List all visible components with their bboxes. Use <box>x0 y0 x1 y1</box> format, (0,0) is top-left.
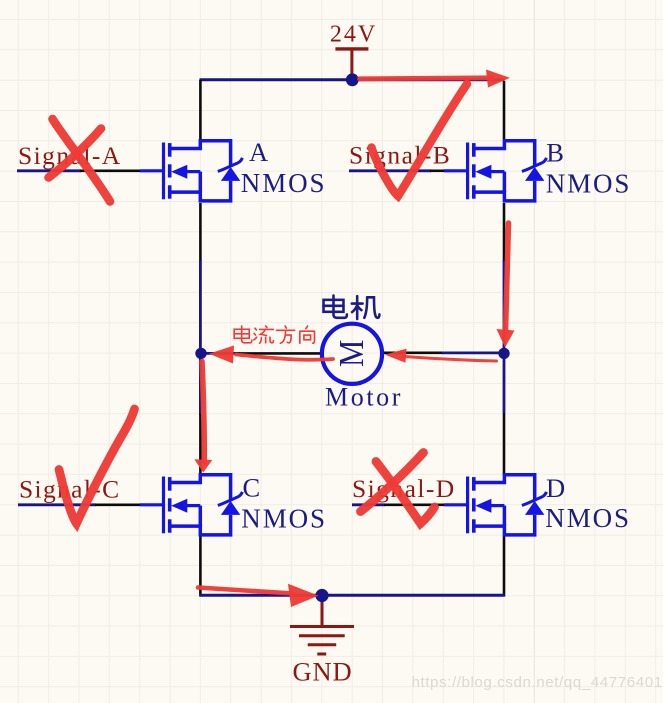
annotation 电流方向 (current direction, Chinese, red) <box>234 326 314 343</box>
transistor D (NMOS low-side right) gate bar <box>466 477 469 534</box>
transistor A (NMOS high-side left) gate pin lead <box>140 169 163 172</box>
wire top bus 24V rail <box>200 78 505 81</box>
wire Signal-B net <box>349 169 431 172</box>
transistor B (NMOS high-side right) bulk arrow <box>490 170 505 173</box>
wire motor left lead <box>201 352 240 355</box>
svg-text:D: D <box>546 473 565 503</box>
power port 24V <box>330 22 377 80</box>
annotation red arrow motor to left node <box>209 346 333 364</box>
svg-text:NMOS: NMOS <box>545 503 631 533</box>
annotation red check over Signal-C <box>59 409 135 524</box>
transistor D (NMOS low-side right) channel (3 dashed segments) <box>472 477 476 533</box>
transistor B (NMOS high-side right) channel (3 dashed segments) <box>472 143 476 199</box>
svg-text:24V: 24V <box>330 22 377 48</box>
annotation red arrow right node to motor (points into motor) <box>385 349 497 363</box>
svg-text:A: A <box>249 137 268 167</box>
motor M1 circle <box>322 324 382 384</box>
wire left leg below C to ground bus <box>199 536 202 597</box>
annotation red X over Signal-A <box>49 119 111 202</box>
wire Signal-A net <box>17 169 81 172</box>
label 电机 (motor, Chinese) <box>324 296 380 319</box>
junction node left (motor left net) <box>195 348 206 359</box>
wire right drain riser (top) <box>503 81 506 139</box>
junction node right (motor right net) <box>498 348 509 359</box>
transistor C (NMOS low-side left) drain stub and loop <box>171 475 231 535</box>
ground symbol GND <box>290 598 354 654</box>
transistor D (NMOS low-side right) drain stub and loop <box>475 475 535 535</box>
svg-text:NMOS: NMOS <box>241 503 327 533</box>
svg-text:NMOS: NMOS <box>546 168 632 198</box>
annotation red X over Signal-D <box>361 453 435 524</box>
svg-text:https://blog.csdn.net/qq_44776: https://blog.csdn.net/qq_44776401 <box>412 674 663 691</box>
svg-text:Motor: Motor <box>325 383 403 412</box>
transistor C (NMOS low-side left) gate pin lead <box>140 503 163 506</box>
wire Signal-C net <box>18 503 96 506</box>
motor M1 rotated M glyph <box>333 340 371 367</box>
svg-text:C: C <box>243 472 261 502</box>
transistor D (NMOS low-side right) bulk arrow <box>490 504 505 507</box>
transistor A (NMOS high-side left) channel (3 dashed segments) <box>168 143 172 199</box>
transistor A (NMOS high-side left) bulk arrow <box>186 170 201 173</box>
transistor C (NMOS low-side left) bulk arrow <box>186 504 201 507</box>
annotation red arrow into ground node <box>198 584 319 607</box>
wire Signal-D net <box>352 503 385 506</box>
svg-text:Signal-B: Signal-B <box>349 141 451 170</box>
annotation red check + stroke over Signal-B <box>372 84 468 196</box>
wire left leg: source of A down to motor node <box>199 203 202 261</box>
transistor C (NMOS low-side left) channel (3 dashed segments) <box>168 477 172 533</box>
svg-text:GND: GND <box>292 657 352 687</box>
wire right leg below D to ground bus <box>503 536 506 597</box>
wire right leg: source of B down to motor node <box>503 203 506 262</box>
transistor C (NMOS low-side left) body diode <box>221 501 240 515</box>
annotation red arrow along top bus <box>360 70 511 88</box>
transistor B (NMOS high-side right) gate pin lead <box>444 169 467 172</box>
wire motor right lead <box>384 351 443 354</box>
transistor A (NMOS high-side left) body diode <box>221 167 240 181</box>
transistor A (NMOS high-side left) drain stub and loop <box>171 141 231 201</box>
annotation red arrow left node down to C <box>194 362 212 473</box>
wire ground bus <box>200 594 505 597</box>
transistor B (NMOS high-side right) drain stub and loop <box>475 141 535 201</box>
svg-text:M: M <box>333 340 371 367</box>
svg-text:NMOS: NMOS <box>241 168 327 198</box>
annotation red arrow down right leg <box>497 223 515 348</box>
svg-text:B: B <box>546 137 564 167</box>
transistor C (NMOS low-side left) gate bar <box>162 477 165 534</box>
transistor D (NMOS low-side right) gate pin lead <box>444 503 467 506</box>
transistor B (NMOS high-side right) gate bar <box>466 143 469 200</box>
junction node ground bus <box>315 589 328 602</box>
transistor A (NMOS high-side left) gate bar <box>162 143 165 200</box>
wire left drain riser (top) <box>199 80 202 139</box>
junction node at 24V rail <box>346 73 359 86</box>
transistor D (NMOS low-side right) body diode <box>525 501 544 515</box>
transistor B (NMOS high-side right) body diode <box>525 167 544 181</box>
